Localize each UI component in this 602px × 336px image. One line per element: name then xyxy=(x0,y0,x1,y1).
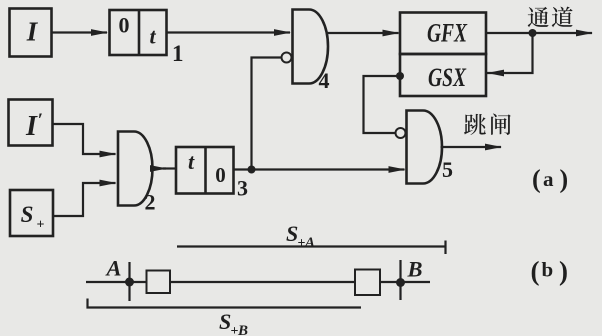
timer element 1 (0-t delay block) xyxy=(110,10,167,55)
reach bracket S+A xyxy=(177,245,446,247)
svg-text:GSX: GSX xyxy=(428,63,466,91)
wire GFX output to channel xyxy=(486,30,593,37)
input box S+ xyxy=(10,190,53,236)
node A dot xyxy=(125,278,134,287)
junction dot channel xyxy=(529,29,537,37)
wire S+ to gate2 xyxy=(53,180,117,216)
svg-text:2: 2 xyxy=(145,190,156,215)
junction dot GSX left xyxy=(396,72,404,80)
wire node3 to gate4 inverted input xyxy=(252,58,282,170)
block GFX xyxy=(400,13,486,55)
svg-text:S: S xyxy=(21,202,34,227)
wire timer3 to gate5 xyxy=(234,166,406,173)
svg-text:b: b xyxy=(542,258,554,282)
wire gate4 to GFX xyxy=(327,30,400,37)
svg-text:S: S xyxy=(219,309,231,334)
block GSX xyxy=(400,54,486,96)
bus tick A xyxy=(128,262,130,301)
reach bracket S+B xyxy=(88,299,362,308)
svg-text:5: 5 xyxy=(442,157,453,182)
and-gate 4 xyxy=(282,10,329,84)
svg-text:I: I xyxy=(25,111,38,142)
node B dot xyxy=(396,278,405,287)
label (a) xyxy=(532,165,568,194)
svg-text:t: t xyxy=(149,24,156,49)
label 跳闸 (trip) xyxy=(464,114,511,135)
svg-text:I: I xyxy=(26,17,39,47)
svg-text:A: A xyxy=(304,235,315,251)
svg-text:(: ( xyxy=(531,256,540,286)
svg-text:3: 3 xyxy=(237,176,248,201)
svg-text:+: + xyxy=(37,218,45,233)
svg-text:a: a xyxy=(543,167,554,191)
svg-text:t: t xyxy=(188,149,195,174)
bracket tick S+A right xyxy=(444,241,446,255)
wire GSX to gate5 inverted input xyxy=(364,76,401,133)
label S+B xyxy=(219,309,248,336)
svg-text:B: B xyxy=(237,323,248,336)
breaker square left xyxy=(147,271,171,294)
transmission line A-B xyxy=(86,281,430,283)
wire I to timer 1 xyxy=(52,29,109,36)
svg-text:(: ( xyxy=(532,165,541,194)
svg-text:B: B xyxy=(407,257,423,282)
svg-text:′: ′ xyxy=(38,110,43,131)
bus tick B xyxy=(399,260,401,300)
wire Iprime to gate2 xyxy=(53,124,117,157)
svg-text:): ) xyxy=(559,256,568,286)
and-gate 2 xyxy=(118,132,153,206)
svg-text:0: 0 xyxy=(119,13,130,38)
and-gate 5 xyxy=(396,111,443,184)
svg-text:): ) xyxy=(560,165,569,194)
input box I prime xyxy=(9,100,53,146)
breaker square right xyxy=(355,270,380,296)
timer element 3 (t-0 delay block) xyxy=(176,147,234,194)
feedback wire to GSX xyxy=(487,33,533,76)
svg-text:GFX: GFX xyxy=(427,19,468,47)
label (b) xyxy=(531,256,569,286)
junction dot node 3 xyxy=(248,166,256,174)
wire timer1 to gate4 xyxy=(167,29,292,36)
svg-text:A: A xyxy=(105,256,122,281)
input box I xyxy=(10,9,52,57)
label 通道 (channel) xyxy=(528,7,573,28)
label S+A xyxy=(286,221,315,251)
wire gate2 to timer 3 xyxy=(150,165,176,172)
svg-text:0: 0 xyxy=(215,163,226,187)
svg-text:4: 4 xyxy=(319,68,330,93)
svg-text:1: 1 xyxy=(172,41,184,66)
svg-text:S: S xyxy=(286,221,298,246)
wire gate5 output (trip) xyxy=(441,144,503,151)
